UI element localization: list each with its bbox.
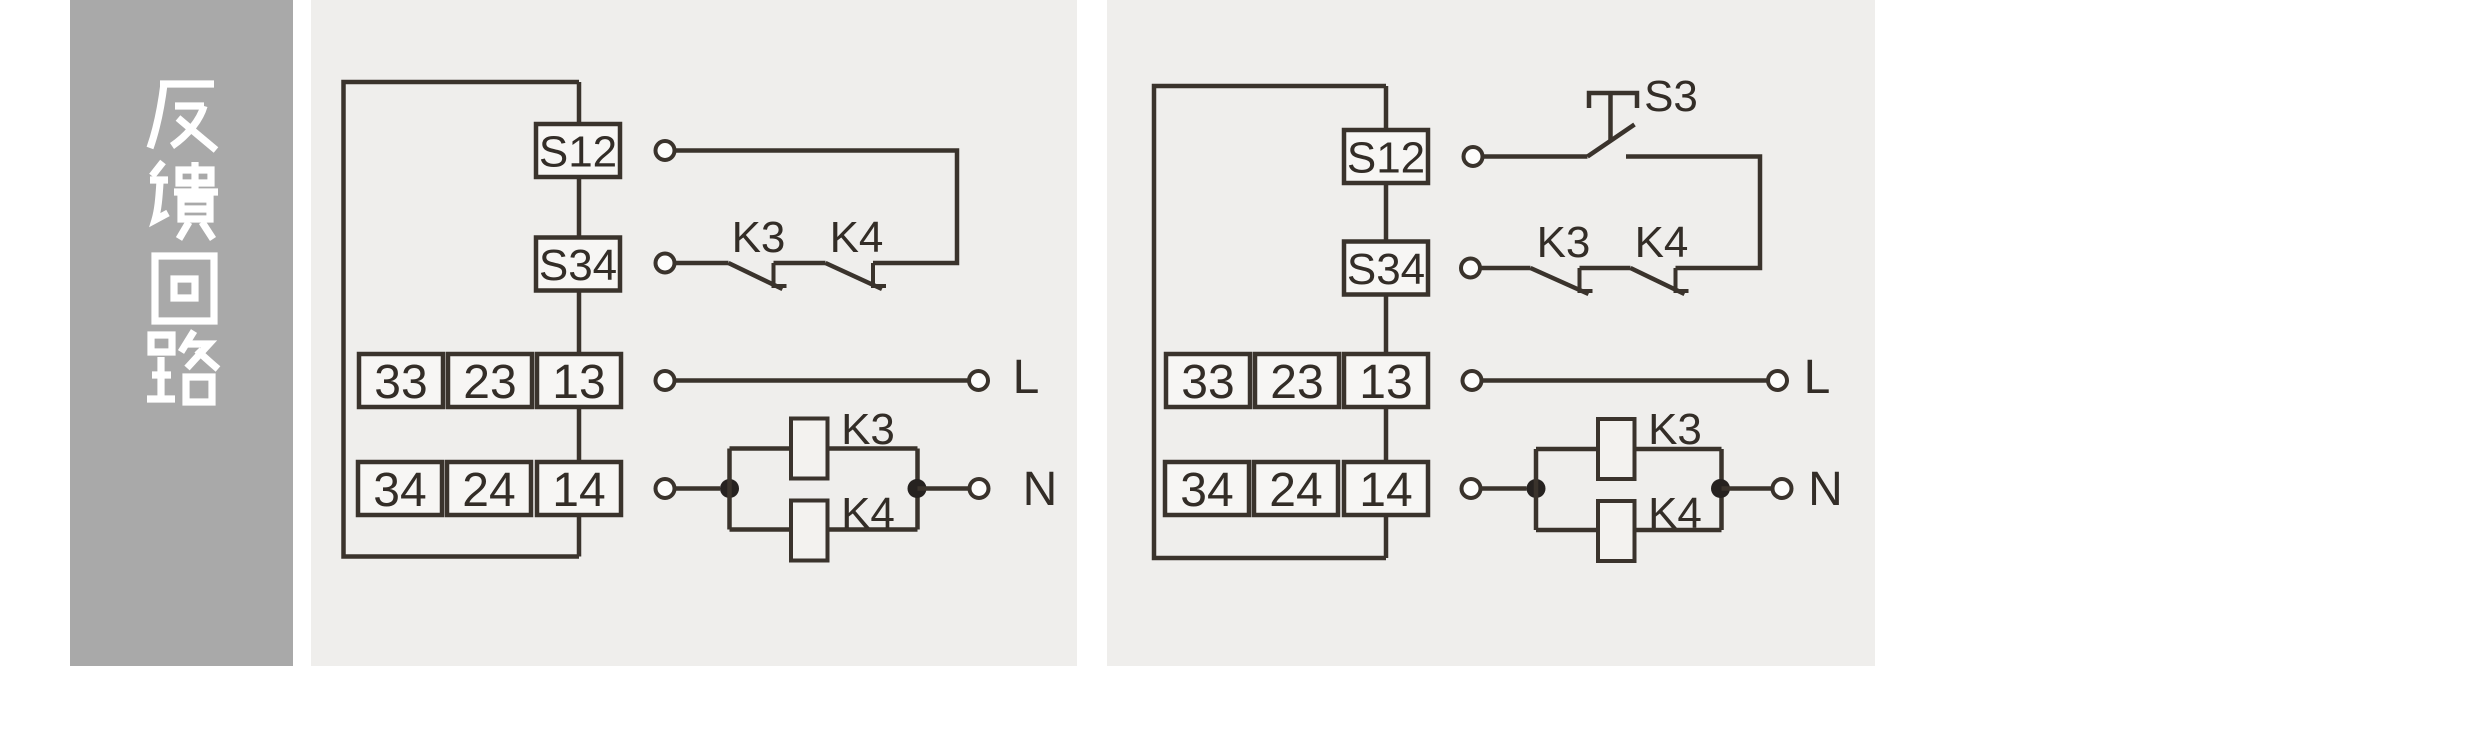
svg-text:K3: K3: [732, 213, 786, 262]
wire loop top to S12 (2): [1384, 86, 1389, 130]
node S12 input terminal (2): [1464, 147, 1483, 166]
terminal 23 (2): [1255, 354, 1339, 409]
wire junction to N terminal (2): [1722, 486, 1772, 491]
wire L line: [676, 378, 968, 383]
svg-text:33: 33: [374, 356, 427, 409]
contact K3 (NO): [729, 263, 787, 289]
svg-text:K4: K4: [1635, 218, 1689, 267]
svg-text:34: 34: [373, 464, 426, 517]
node L terminal: [969, 371, 988, 390]
relay coil K4: [791, 501, 828, 561]
wire K3 coil branch (2): [1536, 447, 1722, 452]
terminal 24: [447, 462, 531, 517]
junction right: [908, 479, 927, 498]
junction left (2): [1527, 479, 1546, 498]
terminal 34 (2): [1165, 462, 1249, 517]
node 14 terminal (2): [1462, 479, 1481, 498]
svg-text:S34: S34: [539, 241, 617, 290]
terminal 13 (2): [1344, 354, 1428, 409]
svg-text:34: 34: [1180, 464, 1233, 517]
terminal S34 (2): [1344, 242, 1428, 295]
panel background 2: [1107, 0, 1875, 666]
junction right (2): [1711, 479, 1730, 498]
svg-text:14: 14: [552, 464, 605, 517]
node L terminal (2): [1768, 371, 1787, 390]
wire S34 to terminal 13: [577, 291, 582, 355]
wire K3 coil branch: [730, 446, 918, 451]
wire 14 terminal to junction (2): [1482, 486, 1527, 491]
svg-text:24: 24: [1269, 464, 1322, 517]
terminal 23: [448, 354, 532, 409]
contact K3 (NO) (2): [1531, 268, 1593, 294]
terminal S34: [536, 238, 620, 291]
svg-text:L: L: [1804, 351, 1831, 404]
wire parallel right branch (2): [1719, 449, 1724, 530]
wire L line (2): [1483, 378, 1767, 383]
node N terminal (2): [1773, 479, 1792, 498]
diagram 1 outer supply loop wire: [344, 82, 580, 557]
contact K4 (NO) (2): [1631, 268, 1689, 294]
switch S3 blade: [1588, 125, 1635, 157]
wire K4 coil branch (2): [1536, 528, 1722, 533]
svg-text:N: N: [1023, 463, 1058, 516]
svg-text:13: 13: [552, 356, 605, 409]
wire K3 contact to K4 contact: [774, 261, 826, 266]
wire loop top to S12: [577, 82, 582, 124]
terminal 34: [358, 462, 442, 517]
terminal 14 (2): [1344, 462, 1428, 517]
wire S34 to terminal 13 (2): [1384, 295, 1389, 355]
node N terminal: [970, 479, 989, 498]
terminal S12 (2): [1344, 130, 1428, 183]
node 13 terminal: [656, 371, 675, 390]
svg-text:K3: K3: [1537, 218, 1591, 267]
terminal S12: [536, 124, 620, 177]
contact K4 (NO): [826, 263, 887, 289]
wire parallel left branch: [727, 449, 732, 530]
wire S34 terminal to K3 contact: [676, 261, 729, 266]
wire 14 terminal to junction: [676, 486, 720, 491]
wire parallel right branch: [915, 449, 920, 530]
terminal 14: [537, 462, 621, 517]
Chinese label 馈 (feedback char 2): [150, 162, 218, 239]
wire K3 contact to K4 contact (2): [1580, 266, 1631, 271]
svg-text:23: 23: [463, 356, 516, 409]
switch S3 pushbutton actuator: [1589, 93, 1637, 141]
svg-text:S12: S12: [539, 128, 617, 177]
wire junction to N terminal: [918, 486, 969, 491]
node S12 input terminal: [656, 141, 675, 160]
node 13 terminal (2): [1463, 371, 1482, 390]
svg-text:33: 33: [1181, 356, 1234, 409]
junction left: [720, 479, 739, 498]
wire S12 row to K4 contact output: [676, 151, 957, 264]
wire S12 terminal to S3 switch: [1484, 154, 1588, 159]
svg-text:K3: K3: [841, 405, 895, 454]
wire terminal 13 to 14: [577, 407, 582, 462]
wire S34 terminal to K3 contact (2): [1482, 266, 1531, 271]
node S34 input terminal (2): [1461, 259, 1480, 278]
svg-text:N: N: [1808, 463, 1843, 516]
terminal 33 (2): [1166, 354, 1250, 409]
diagram 2 outer supply loop wire: [1154, 86, 1386, 558]
panel background 1: [311, 0, 1077, 666]
wire S3 to K4 contact output (2): [1626, 157, 1760, 269]
svg-text:23: 23: [1270, 356, 1323, 409]
svg-text:S3: S3: [1644, 72, 1698, 121]
wire K4 coil branch: [730, 527, 918, 532]
svg-text:L: L: [1013, 351, 1040, 404]
wire terminal 13 to 14 (2): [1384, 407, 1389, 462]
svg-text:K3: K3: [1648, 405, 1702, 454]
node S34 input terminal: [656, 254, 675, 273]
svg-text:S34: S34: [1347, 245, 1425, 294]
terminal 13: [537, 354, 621, 409]
relay coil K3 (2): [1598, 419, 1635, 479]
svg-text:24: 24: [462, 464, 515, 517]
relay coil K4 (2): [1598, 501, 1635, 561]
wire S12 to S34 (2): [1384, 183, 1389, 242]
gray side label bar: [70, 0, 293, 666]
wire S12 to S34: [577, 177, 582, 238]
Chinese label 回 (loop char 1): [155, 256, 214, 321]
wire terminal 14 to loop bottom: [577, 515, 582, 557]
svg-text:13: 13: [1359, 356, 1412, 409]
svg-text:14: 14: [1359, 464, 1412, 517]
terminal 33: [359, 354, 443, 409]
relay coil K3: [791, 419, 828, 479]
wire parallel left branch (2): [1534, 449, 1539, 530]
wire terminal 14 to loop bottom (2): [1384, 515, 1389, 558]
terminal 24 (2): [1254, 462, 1338, 517]
svg-text:S12: S12: [1347, 134, 1425, 183]
svg-text:K4: K4: [841, 489, 895, 538]
Chinese label 路 (loop char 2): [147, 331, 218, 402]
Chinese label 反 (feedback char 1): [150, 84, 216, 150]
svg-text:K4: K4: [1648, 489, 1702, 538]
svg-text:K4: K4: [830, 213, 884, 262]
node 14 terminal: [656, 479, 675, 498]
